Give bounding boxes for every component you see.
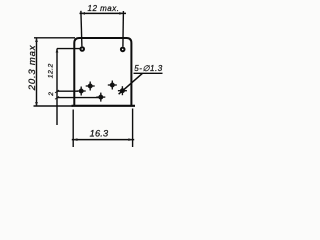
extension line right (12 max to top-right hole): [122, 11, 125, 47]
leader line to hole H5: [119, 73, 143, 94]
svg-text:5-∅1.3: 5-∅1.3: [134, 64, 163, 73]
extension line to hole H1: [57, 90, 78, 92]
extension line bottom-left (plate bottom to 20.3 dim line): [34, 105, 74, 107]
plate outline: [74, 38, 131, 106]
svg-text:16.3: 16.3: [90, 129, 109, 139]
extension line 16.3 right: [132, 109, 134, 148]
hole H5: [118, 86, 127, 95]
svg-text:12 max.: 12 max.: [88, 4, 120, 13]
hole H1: [77, 87, 86, 96]
extension line to top-left hole: [57, 48, 80, 50]
dimension 12 max line: [80, 12, 127, 14]
extension line 16.3 left: [72, 110, 74, 148]
dimension 20.3 max line: [36, 38, 38, 106]
extension line left (12 max to top-left hole): [81, 11, 82, 47]
extension line top-left (plate top to 20.3 dim line): [34, 37, 75, 39]
top-right hole: [121, 48, 125, 52]
extension line to hole H3: [57, 97, 99, 99]
top-left hole: [80, 47, 84, 51]
dimension 12.2 / 2 shared line: [56, 49, 58, 126]
plate bottom edge: [72, 105, 136, 107]
dimension 16.3 line: [72, 139, 134, 141]
svg-text:20.3 max: 20.3 max: [27, 44, 38, 91]
svg-text:2: 2: [48, 92, 55, 97]
hole H3: [96, 93, 105, 102]
leader underline: [134, 72, 163, 74]
svg-text:12.2: 12.2: [48, 63, 55, 78]
hole H4: [108, 81, 117, 90]
hole H2: [86, 82, 95, 91]
